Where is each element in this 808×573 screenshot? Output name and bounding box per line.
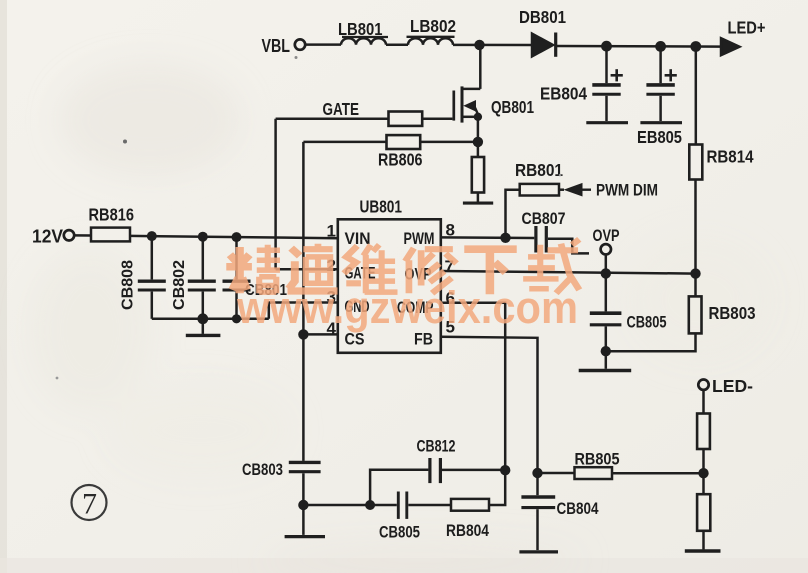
wire top rail to RB814 <box>695 47 698 145</box>
wire pin 3 GND to bottom rail <box>269 303 338 319</box>
svg-text:DB801: DB801 <box>519 7 566 27</box>
capacitor CB807 <box>534 226 537 253</box>
ground below sense resistor <box>463 202 493 205</box>
resistor RB816 <box>91 228 130 242</box>
wire GATE vertical down to pin 2 <box>274 119 277 270</box>
svg-text:PWM DIM: PWM DIM <box>596 182 658 200</box>
inductor LB801 <box>341 38 386 45</box>
resistor RB814 <box>689 145 702 180</box>
junction node OVP <box>601 268 611 278</box>
svg-text:LB802: LB802 <box>410 16 456 36</box>
watermark char 精 <box>226 245 280 293</box>
svg-text:UB801: UB801 <box>360 197 403 217</box>
capacitor CB803 <box>289 462 321 505</box>
junction node on top rail at RB814 <box>690 41 701 52</box>
capacitor CB804 <box>521 473 555 550</box>
svg-text:CB807: CB807 <box>522 210 566 228</box>
node VBL terminal <box>295 39 305 49</box>
wire 12V to RB816 <box>74 234 91 237</box>
junction node divider/RB805 <box>698 468 708 478</box>
node 12V terminal <box>64 230 74 240</box>
PWM DIM input arrow <box>564 183 583 197</box>
op-amp/controller UB801 box <box>338 219 441 352</box>
wire up-branch to CB812 <box>370 470 428 505</box>
capacitor CB801 <box>223 237 251 319</box>
ground below CB804 <box>519 550 558 553</box>
junction node on top rail at EB805 <box>655 41 666 52</box>
junction node at QB801 drain / boost node <box>474 40 484 50</box>
wire gate resistor to QB801 gate <box>422 117 452 120</box>
ground below divider <box>685 549 721 552</box>
svg-text:RB805: RB805 <box>575 451 620 469</box>
wire pin 5 FB right and down <box>441 337 538 473</box>
resistor RB801 <box>520 184 559 196</box>
wire CB812 right to FB junction <box>442 469 505 472</box>
resistor RB804 <box>451 499 489 511</box>
svg-text:VBL: VBL <box>262 36 291 56</box>
wire pin 6 COMP right and down <box>441 303 505 470</box>
junction node rail/CB801 <box>232 232 242 242</box>
capacitor EB805 (electrolytic) <box>640 46 682 122</box>
capacitor CB805 (lower) <box>397 492 400 519</box>
node OVP terminal <box>601 244 611 254</box>
wire RB803 top <box>694 274 697 297</box>
wire pin 4 stub <box>303 333 337 336</box>
svg-text:QB801: QB801 <box>491 97 534 117</box>
wire RB805 to LED- divider <box>612 472 704 475</box>
wire junction to lower divider resistor <box>702 473 705 494</box>
node GATE: wire from gate resistor to pin 2 <box>276 117 389 120</box>
svg-text:LED-: LED- <box>712 376 753 396</box>
wire LB802 to diode DB801 <box>453 44 532 47</box>
svg-text:EB805: EB805 <box>637 127 682 147</box>
wire RB803 bottom to CB805 junction <box>606 333 696 351</box>
node LED- terminal <box>698 380 708 390</box>
svg-text:GATE: GATE <box>323 99 360 119</box>
capacitor CB812 <box>428 458 431 483</box>
junction node bottom rail / CB801 <box>232 314 241 323</box>
svg-text:RB816: RB816 <box>89 205 135 225</box>
ground below CB805 <box>579 369 632 372</box>
junction node bottom rail / ground <box>197 313 208 324</box>
junction node rail/CB802 <box>198 232 208 242</box>
svg-text:CB803: CB803 <box>242 461 283 479</box>
junction node RB814/RB803 <box>690 268 700 278</box>
resistor RB806 <box>387 135 421 149</box>
wire pin 2 stub <box>276 268 338 271</box>
svg-text:LB801: LB801 <box>338 19 383 39</box>
watermark char 下 <box>464 249 516 294</box>
junction node CB805/RB803 bottom <box>601 346 611 356</box>
LED+ arrow <box>721 38 740 55</box>
watermark char 维 <box>344 245 398 293</box>
svg-text:EB804: EB804 <box>540 84 587 104</box>
wire lower resistor to ground <box>702 531 705 550</box>
junction node CB812/RB804/pin6 <box>500 465 510 475</box>
wire LED- to upper divider resistor <box>702 390 705 414</box>
svg-text:7: 7 <box>82 488 97 521</box>
wire ground stub <box>202 319 205 334</box>
junction node FB/RB805/CB804 <box>532 468 542 478</box>
svg-text:RB801: RB801 <box>515 160 563 180</box>
svg-text:RB814: RB814 <box>707 147 754 167</box>
svg-text:www.gzweix.com: www.gzweix.com <box>236 282 578 333</box>
wire RB801 to PWM DIM arrow <box>559 188 564 191</box>
wire 12V rail to pin 1 <box>130 236 338 238</box>
ground below CB803 <box>285 535 325 538</box>
wire RB814 to OVP line <box>694 180 697 274</box>
svg-text:VIN: VIN <box>345 229 371 248</box>
wire pin 7 (OVP net) <box>441 271 696 274</box>
capacitor CB802 <box>188 237 216 319</box>
wire RB806 left to CS vertical <box>303 141 386 144</box>
wire ground stub below CB803 <box>302 505 305 535</box>
wire RB804 right up to junction <box>489 470 505 505</box>
wire DB801 to LED+ arrow <box>557 45 722 48</box>
wire to ground below CB805 <box>605 351 608 369</box>
watermark char 载 <box>523 239 579 293</box>
junction node comp network left <box>365 500 375 510</box>
svg-text:CB812: CB812 <box>417 438 456 456</box>
resistor RB805 <box>575 467 613 479</box>
svg-text:CB805: CB805 <box>379 524 420 542</box>
svg-text:12V: 12V <box>32 227 63 247</box>
svg-text:OVP: OVP <box>593 227 620 245</box>
wire VBL to LB801 <box>305 43 341 46</box>
capacitor EB804 (electrolytic) <box>586 46 628 123</box>
junction node on top rail at EB804 <box>601 41 612 52</box>
ground below capacitor rail <box>186 334 221 337</box>
resistor (source sense, unlabeled) <box>472 157 484 193</box>
figure number 7 (circled) <box>72 485 107 521</box>
wire junction to RB805 <box>538 472 575 475</box>
wire lower branch to CB805 (lower) <box>370 504 397 507</box>
diode DB801 <box>532 34 553 57</box>
wire CB807 right toward OVP <box>548 239 589 254</box>
svg-text:LED+: LED+ <box>728 18 766 38</box>
svg-text:RB803: RB803 <box>709 303 756 323</box>
wire sense resistor to ground <box>477 193 480 202</box>
svg-text:RB806: RB806 <box>378 150 423 170</box>
junction node rail/CB808 <box>147 231 157 241</box>
wire OVP terminal to pin 7 line <box>605 255 608 274</box>
inductor LB802 <box>408 38 453 45</box>
svg-text:CB805: CB805 <box>627 314 667 332</box>
wire LB801 to LB802 <box>386 44 408 47</box>
watermark char 修 <box>405 248 456 293</box>
capacitor CB805 (upper) <box>605 273 608 311</box>
wire RB801 left down to pin 8 <box>506 190 520 238</box>
capacitor CB808 <box>138 236 166 319</box>
svg-text:CB808: CB808 <box>120 260 137 310</box>
wire RB806 to source junction <box>420 141 478 144</box>
wire CB805 to RB804 <box>408 504 451 507</box>
wire CB803 junction to compensation network <box>303 504 370 507</box>
transistor QB801 (N-MOSFET) <box>454 45 482 142</box>
junction node CS pin 4 <box>298 329 308 339</box>
wire capacitor bottom rail <box>152 318 269 321</box>
svg-text:8: 8 <box>446 221 455 240</box>
junction node pin8 / RB801 <box>500 233 510 243</box>
resistor (upper divider, unlabeled) <box>697 414 710 450</box>
svg-text:CB802: CB802 <box>171 260 188 310</box>
resistor (lower divider, unlabeled) <box>697 494 710 531</box>
wire CS vertical (RB806 down to pin 4 and CB803) <box>302 142 305 461</box>
resistor RB803 <box>689 296 702 333</box>
scan speck marks <box>123 140 127 144</box>
svg-text:CB804: CB804 <box>557 500 600 518</box>
watermark (salmon overprint) <box>226 239 579 333</box>
svg-text:PWM: PWM <box>404 229 435 248</box>
watermark char 通 <box>287 244 337 291</box>
wire source junction to sense resistor <box>477 142 480 157</box>
svg-text:1: 1 <box>327 222 336 241</box>
junction node CB803 bottom <box>298 500 308 510</box>
resistor (gate series, unlabeled) <box>389 112 423 126</box>
svg-text:RB804: RB804 <box>446 522 490 540</box>
junction node QB801 source / RB806 <box>473 137 483 147</box>
wire divider resistor to junction <box>702 449 705 473</box>
wire pin 8 to CB807 <box>441 236 535 239</box>
